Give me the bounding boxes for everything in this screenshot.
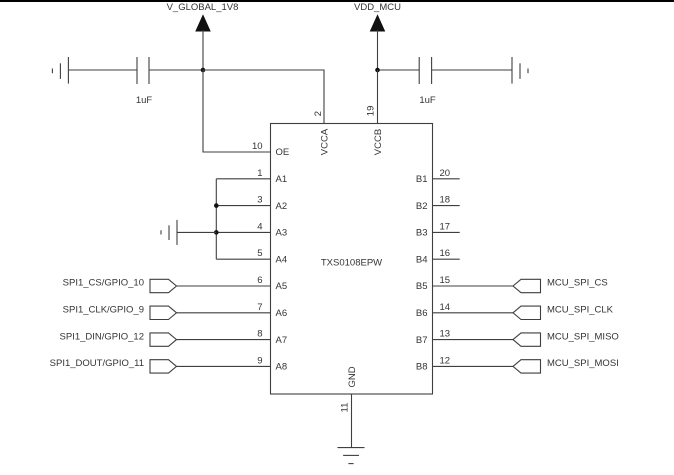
pin 6 A5 bbox=[177, 275, 288, 292]
svg-text:18: 18 bbox=[440, 195, 451, 206]
ground (left of C1) bbox=[52, 57, 68, 84]
pin 13 B7 bbox=[416, 329, 513, 346]
svg-text:SPI1_CLK/GPIO_9: SPI1_CLK/GPIO_9 bbox=[63, 305, 144, 316]
capacitor C1 bbox=[137, 57, 149, 84]
svg-text:13: 13 bbox=[440, 329, 451, 340]
svg-text:17: 17 bbox=[440, 221, 451, 232]
pin 15 B5 bbox=[416, 275, 513, 292]
ground (A-side tie) bbox=[161, 220, 177, 245]
svg-text:8: 8 bbox=[257, 329, 262, 340]
wire bbox=[203, 70, 324, 124]
net flag SPI1_DIN/GPIO_12 bbox=[60, 331, 177, 346]
svg-text:B2: B2 bbox=[416, 201, 428, 212]
svg-text:5: 5 bbox=[257, 248, 262, 259]
svg-text:14: 14 bbox=[440, 302, 451, 313]
svg-text:6: 6 bbox=[257, 275, 262, 286]
svg-text:VCCA: VCCA bbox=[320, 128, 331, 155]
ground (GND pin) bbox=[337, 448, 364, 464]
svg-text:A7: A7 bbox=[276, 335, 288, 346]
svg-text:B3: B3 bbox=[416, 228, 428, 239]
svg-text:B6: B6 bbox=[416, 308, 428, 319]
wire bbox=[377, 70, 379, 124]
wire bbox=[149, 69, 203, 71]
svg-text:1: 1 bbox=[257, 168, 262, 179]
power flag V_GLOBAL_1V8 bbox=[167, 2, 239, 70]
pin 11 GND bbox=[339, 366, 358, 447]
pin 16 B4 bbox=[416, 248, 460, 265]
svg-text:9: 9 bbox=[257, 355, 262, 366]
svg-text:1uF: 1uF bbox=[136, 95, 153, 106]
wire bbox=[378, 69, 420, 71]
svg-text:A5: A5 bbox=[276, 281, 288, 292]
wire bbox=[68, 69, 137, 71]
svg-text:B5: B5 bbox=[416, 281, 428, 292]
svg-text:2: 2 bbox=[313, 111, 324, 116]
svg-text:VCCB: VCCB bbox=[373, 129, 384, 155]
wire bbox=[432, 69, 512, 71]
svg-text:TXS0108EPW: TXS0108EPW bbox=[321, 258, 382, 269]
wire A1-A4 bus bbox=[215, 179, 217, 259]
svg-text:A1: A1 bbox=[276, 174, 288, 185]
pin 20 B1 bbox=[416, 168, 460, 185]
net flag MCU_SPI_MOSI bbox=[513, 358, 619, 373]
svg-text:MCU_SPI_MISO: MCU_SPI_MISO bbox=[547, 331, 619, 342]
pin 14 B6 bbox=[416, 302, 513, 319]
svg-text:20: 20 bbox=[440, 168, 451, 179]
pin 8 A7 bbox=[177, 329, 288, 346]
pin 17 B3 bbox=[416, 221, 460, 238]
svg-text:4: 4 bbox=[257, 221, 262, 232]
pin 3 A2 bbox=[216, 195, 287, 212]
net flag SPI1_CLK/GPIO_9 bbox=[63, 305, 177, 320]
pin 12 B8 bbox=[416, 355, 513, 372]
junction bbox=[375, 68, 380, 73]
net flag SPI1_DOUT/GPIO_11 bbox=[50, 358, 177, 373]
svg-text:3: 3 bbox=[257, 195, 262, 206]
power flag VDD_MCU bbox=[354, 2, 401, 70]
svg-text:OE: OE bbox=[276, 147, 290, 158]
svg-text:B1: B1 bbox=[416, 174, 428, 185]
pin 9 A8 bbox=[177, 355, 288, 372]
op-amp U1 TXS0108EPW body bbox=[271, 124, 433, 395]
pin 7 A6 bbox=[177, 302, 288, 319]
svg-text:15: 15 bbox=[440, 275, 451, 286]
svg-text:11: 11 bbox=[339, 403, 350, 413]
svg-text:B8: B8 bbox=[416, 362, 428, 373]
svg-text:SPI1_DIN/GPIO_12: SPI1_DIN/GPIO_12 bbox=[60, 331, 144, 342]
svg-text:A8: A8 bbox=[276, 362, 288, 373]
wire bbox=[177, 231, 216, 233]
svg-text:A6: A6 bbox=[276, 308, 288, 319]
svg-text:MCU_SPI_MOSI: MCU_SPI_MOSI bbox=[547, 358, 619, 369]
svg-text:1uF: 1uF bbox=[419, 95, 436, 106]
svg-text:10: 10 bbox=[252, 141, 263, 152]
pin 4 A3 bbox=[216, 221, 287, 238]
net flag MCU_SPI_CLK bbox=[513, 305, 614, 320]
ground (right of C2) bbox=[512, 57, 528, 84]
svg-text:A4: A4 bbox=[276, 254, 288, 265]
svg-text:12: 12 bbox=[440, 355, 451, 366]
svg-text:GND: GND bbox=[347, 366, 358, 387]
svg-text:SPI1_DOUT/GPIO_11: SPI1_DOUT/GPIO_11 bbox=[50, 358, 144, 369]
net flag MCU_SPI_CS bbox=[513, 278, 608, 293]
border top edge bbox=[0, 0, 674, 2]
pin 19 VCCB bbox=[365, 106, 384, 156]
net flag MCU_SPI_MISO bbox=[513, 331, 619, 346]
svg-text:A3: A3 bbox=[276, 228, 288, 239]
svg-text:MCU_SPI_CLK: MCU_SPI_CLK bbox=[547, 305, 614, 316]
capacitor C2 bbox=[419, 57, 431, 84]
svg-text:7: 7 bbox=[257, 302, 262, 313]
wire bbox=[203, 70, 271, 152]
pin 1 A1 bbox=[216, 168, 287, 185]
junction bbox=[201, 68, 206, 73]
pin 10 OE bbox=[252, 141, 289, 158]
svg-text:SPI1_CS/GPIO_10: SPI1_CS/GPIO_10 bbox=[63, 278, 144, 289]
svg-text:B7: B7 bbox=[416, 335, 428, 346]
junction bbox=[214, 230, 219, 235]
svg-text:19: 19 bbox=[365, 106, 376, 117]
svg-text:V_GLOBAL_1V8: V_GLOBAL_1V8 bbox=[167, 2, 239, 13]
pin 2 VCCA bbox=[313, 111, 331, 155]
pin 18 B2 bbox=[416, 195, 460, 212]
pin 5 A4 bbox=[216, 248, 287, 265]
svg-text:16: 16 bbox=[440, 248, 451, 259]
svg-text:A2: A2 bbox=[276, 201, 288, 212]
svg-text:MCU_SPI_CS: MCU_SPI_CS bbox=[547, 278, 608, 289]
svg-text:VDD_MCU: VDD_MCU bbox=[354, 2, 401, 13]
junction bbox=[214, 203, 219, 208]
net flag SPI1_CS/GPIO_10 bbox=[63, 278, 177, 293]
svg-text:B4: B4 bbox=[416, 254, 428, 265]
